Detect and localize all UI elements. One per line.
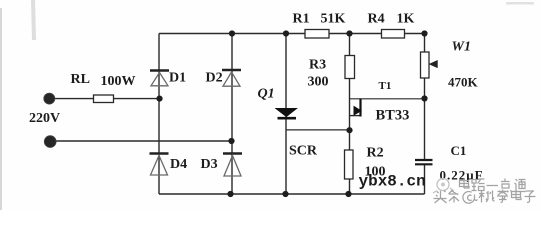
wire: bottom rail [159, 193, 425, 195]
label R3 value 300 [308, 75, 329, 90]
resistor R4 [382, 30, 405, 39]
label W1 [452, 40, 471, 55]
label D1 [169, 71, 186, 86]
wire: UJT emitter line to W1/C1 node [350, 98, 425, 100]
svg-text:100W: 100W [101, 74, 136, 89]
label R2 value 100 [365, 165, 386, 180]
terminal: 220V bottom [44, 136, 56, 148]
junction dot: top rail / D2 [229, 30, 235, 36]
svg-text:51K: 51K [321, 12, 346, 27]
电 [460, 179, 470, 189]
svg-text:D3: D3 [201, 157, 218, 172]
junction dot: bottom rail / R2 [345, 191, 351, 197]
junction dot: top rail / R1-R4-R3 node [346, 30, 352, 36]
svg-text:W1: W1 [452, 40, 471, 55]
label RL value 100W [101, 74, 136, 89]
label W1 value 470K [448, 75, 479, 90]
svg-text:470K: 470K [448, 75, 479, 90]
label R3 [309, 58, 326, 73]
wire: bridge middle column [231, 34, 233, 195]
capacitor C1 [415, 160, 433, 164]
svg-text:R3: R3 [309, 58, 326, 73]
junction dot: D1-D4 input node [156, 96, 162, 102]
svg-text:1K: 1K [397, 12, 415, 27]
条 [449, 190, 460, 203]
svg-text:D1: D1 [169, 71, 186, 86]
label RL [71, 72, 90, 87]
svg-text:R1: R1 [293, 12, 310, 27]
junction dot: top rail / W1 top [421, 30, 427, 36]
点 [499, 179, 511, 193]
李 [497, 190, 508, 203]
label R4 [368, 12, 385, 27]
diode D1 [150, 71, 169, 86]
label BT33 [376, 108, 410, 124]
label R4 value 1K [397, 12, 415, 27]
watermark icon (toutiao logo, faint) [433, 179, 454, 194]
wire: SCR gate lead [287, 129, 350, 131]
svg-text:Q1: Q1 [258, 87, 275, 102]
junction dot: W1-C1-emitter node [421, 95, 427, 101]
@ [463, 192, 478, 204]
diode D2 [222, 70, 241, 86]
wire: top rail [159, 33, 425, 35]
label R2 [367, 146, 384, 161]
label Q1 [258, 87, 275, 102]
watermark text line2: 头条 @桃李电子 [434, 190, 536, 204]
wire: AC input top [49, 98, 160, 100]
wire: R3/R2 column [349, 34, 351, 195]
svg-text:ybx8.cn: ybx8.cn [359, 173, 426, 191]
svg-text:RL: RL [71, 72, 90, 87]
label D4 [170, 157, 187, 172]
wire: right column (W1/C1) upper [424, 34, 426, 160]
diode D3 [223, 154, 242, 177]
label T1 [379, 80, 392, 92]
svg-text:220V: 220V [29, 111, 60, 126]
电 [512, 190, 522, 200]
junction dot: gate / R2 node [346, 127, 352, 133]
SCR Q1 [276, 109, 297, 119]
wire: AC input bottom [50, 140, 232, 142]
svg-text:D2: D2 [206, 71, 223, 86]
label D3 [201, 157, 218, 172]
svg-text:R2: R2 [367, 146, 384, 161]
watermark ybx8.cn [359, 173, 426, 191]
diode D4 [150, 154, 169, 176]
wire: right column (C1) lower [424, 165, 426, 195]
一 [487, 185, 499, 187]
桃 [479, 190, 495, 203]
potentiometer W1 [421, 52, 438, 78]
label 220V [29, 111, 60, 126]
svg-text:C1: C1 [451, 143, 467, 158]
junction dot: top rail / SCR anode [283, 30, 289, 36]
svg-text:SCR: SCR [289, 144, 318, 159]
wire: bridge left column [158, 34, 160, 195]
子 [525, 191, 536, 202]
svg-text:T1: T1 [379, 80, 392, 92]
resistor R3 [345, 56, 355, 79]
wire: SCR anode-cathode column [285, 34, 287, 195]
label D2 [206, 71, 223, 86]
terminal: 220V top [44, 93, 55, 104]
头 [434, 191, 447, 204]
svg-text:300: 300 [308, 75, 329, 90]
路 [472, 179, 485, 191]
label C1 value 0.22uF [440, 168, 484, 183]
resistor R1 [305, 30, 329, 39]
watermark text line1: 电路一点通 [460, 179, 526, 193]
junction dot: bottom rail / D3 [227, 191, 233, 197]
wire: UJT base1 stub [350, 115, 361, 117]
label SCR [289, 144, 318, 159]
transistor T1 (UJT BT33) [354, 99, 361, 117]
svg-text:BT33: BT33 [376, 108, 410, 124]
resistor R2 [345, 150, 354, 179]
junction dot: bottom rail / SCR cathode [282, 191, 288, 197]
resistor RL [94, 95, 114, 103]
junction dot: D2-D3 input node [228, 138, 234, 144]
svg-text:R4: R4 [368, 12, 385, 27]
label R1 [293, 12, 310, 27]
通 [514, 179, 526, 192]
label C1 [451, 143, 467, 158]
svg-text:D4: D4 [170, 157, 187, 172]
label R1 value 51K [321, 12, 346, 27]
